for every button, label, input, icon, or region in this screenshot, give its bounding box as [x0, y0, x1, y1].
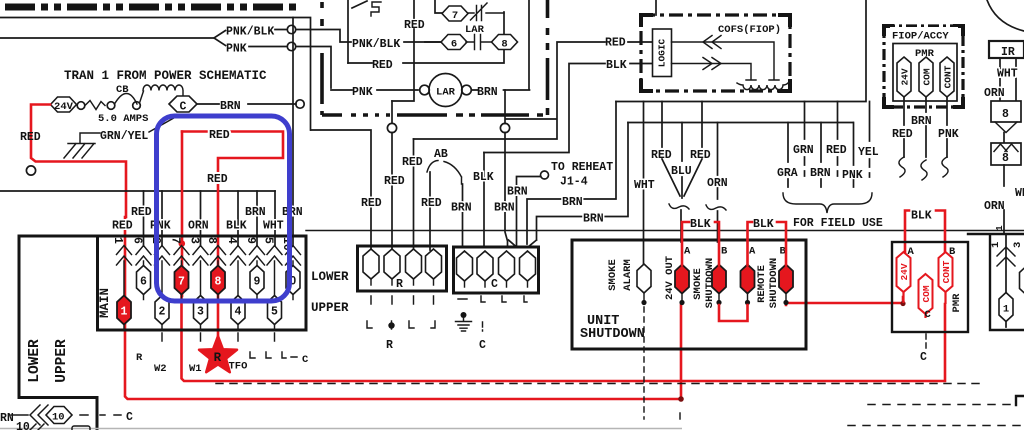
terminal A (red hexagon): [675, 265, 689, 294]
svg-text:24V: 24V: [899, 263, 910, 280]
dashed line bottom right lower: [848, 425, 1024, 427]
svg-text:ORN: ORN: [707, 177, 728, 190]
svg-text:BLK: BLK: [753, 218, 774, 231]
red wire remote B to PMR 24V: [786, 297, 903, 305]
wire: thick dashed panel edge top-left: [5, 4, 298, 11]
svg-text:RED: RED: [131, 206, 152, 219]
svg-text:CONT: CONT: [941, 260, 952, 283]
svg-text:RED: RED: [372, 59, 393, 72]
wire RED from FIOP 24V: [903, 97, 905, 157]
field wire RED: [837, 102, 839, 177]
svg-text:1: 1: [121, 306, 128, 319]
svg-text:UPPER: UPPER: [311, 301, 349, 315]
svg-text:A: A: [749, 246, 756, 258]
svg-text:CONT: CONT: [943, 65, 954, 88]
MAIN wire-entry chevrons with circuit numbers: [117, 246, 132, 266]
terminal C (hexagon): [169, 96, 197, 112]
svg-text:PNK/BLK: PNK/BLK: [352, 38, 400, 51]
svg-text:3: 3: [188, 237, 201, 244]
box COFS(FIOP) dashed: [641, 15, 790, 91]
svg-text:R: R: [214, 351, 222, 365]
LAR NC contact: [468, 3, 504, 21]
red star R: [199, 336, 237, 372]
svg-text:A: A: [684, 246, 691, 258]
box UNIT SHUTDOWN: [572, 240, 806, 349]
terminal 5 (MAIN lower row): [274, 261, 276, 330]
svg-text:W1: W1: [189, 363, 202, 375]
svg-text:TFO: TFO: [229, 361, 248, 373]
svg-text:6: 6: [131, 237, 144, 244]
wire PNK to LAR: [331, 89, 418, 91]
svg-text:FOR FIELD USE: FOR FIELD USE: [793, 217, 883, 230]
terminal C1: [457, 251, 473, 281]
svg-text:BRN: BRN: [451, 202, 472, 215]
svg-text:SHUTDOWN: SHUTDOWN: [580, 327, 645, 342]
svg-text:PNK: PNK: [842, 169, 863, 182]
svg-text:BRN: BRN: [507, 186, 528, 199]
terminal 24V (PMR, red): [897, 252, 911, 292]
svg-text:C: C: [302, 354, 309, 366]
svg-text:BRN: BRN: [282, 206, 303, 219]
forked wire PNK/BLK + PNK: [0, 31, 226, 46]
wire RED from 24V fuse, left side: [31, 105, 126, 218]
svg-text:10: 10: [52, 412, 65, 424]
svg-text:WHT: WHT: [997, 68, 1018, 81]
wire RED down to terminal R3: [413, 139, 415, 250]
svg-text:COFS(FIOP): COFS(FIOP): [718, 24, 781, 36]
svg-text:B: B: [721, 246, 728, 258]
svg-text:10: 10: [16, 421, 30, 430]
svg-text:BLU: BLU: [671, 165, 692, 178]
svg-text:5: 5: [271, 306, 278, 319]
wire BRN from C4 to bus 2: [528, 123, 628, 248]
svg-text:WHT: WHT: [634, 179, 655, 192]
svg-text:RED: RED: [361, 197, 382, 210]
wire RED down to terminal R2: [391, 133, 393, 251]
COFS coil: [737, 83, 788, 90]
svg-text:SMOKE: SMOKE: [692, 268, 704, 300]
junction dot under R2: [388, 322, 394, 328]
wire RED drop 2: [684, 102, 702, 197]
stubs under R block: [371, 296, 434, 304]
wire PNK to terminal 2: [161, 191, 163, 246]
svg-text:RED: RED: [404, 19, 425, 32]
terminal C4: [520, 251, 536, 281]
terminal strip bottom-left: [19, 396, 97, 399]
svg-text:RED: RED: [605, 37, 626, 50]
svg-text:RED: RED: [892, 128, 913, 141]
svg-text:AB: AB: [434, 148, 448, 161]
feeder wire above MAIN: [0, 190, 275, 192]
wire GRN/YEL with chassis ground: [80, 115, 180, 144]
bus wire 2: [628, 122, 853, 124]
dashed boundary vertical right: [546, 0, 550, 115]
box FIOP/ACCY dashed: [884, 26, 963, 107]
wire RED drop: [662, 102, 680, 197]
terminal COM (FIOP): [919, 57, 933, 97]
terminal R3: [406, 249, 422, 279]
svg-text:YEL: YEL: [858, 146, 879, 159]
plug chevrons 10: [30, 405, 48, 425]
wire BLK to terminal 4: [237, 191, 239, 246]
box PMR: [892, 242, 968, 332]
connector circle PNK: [287, 42, 295, 50]
svg-text:RED: RED: [690, 149, 711, 162]
svg-text:IR: IR: [1001, 46, 1015, 59]
svg-text:C: C: [479, 339, 486, 352]
svg-text:C: C: [491, 278, 498, 291]
connector circle on red wire: [26, 166, 35, 175]
svg-text:PNK: PNK: [150, 220, 171, 233]
wire RED down to terminal R4: [429, 172, 431, 250]
svg-text:PMR: PMR: [951, 293, 963, 313]
blower housing arc: [987, 0, 1024, 31]
svg-text:BRN: BRN: [477, 86, 498, 99]
svg-text:7: 7: [169, 237, 182, 244]
terminal 24V (hexagon): [51, 97, 77, 112]
svg-text:RED: RED: [826, 144, 847, 157]
terminal C2: [477, 251, 493, 281]
svg-text:ALARM: ALARM: [622, 259, 634, 291]
svg-text:PNK: PNK: [352, 86, 373, 99]
terminal B (red hexagon): [712, 265, 726, 294]
fuse CB 5.0 AMPS: [77, 102, 85, 110]
svg-text:RED: RED: [402, 156, 423, 169]
svg-text:BRN: BRN: [911, 115, 932, 128]
connector circle BRN: [296, 100, 304, 108]
dashed line bottom right upper: [868, 404, 1013, 406]
wire BRN from LAR up: [472, 0, 530, 90]
svg-text:R: R: [136, 352, 143, 364]
svg-text:8: 8: [501, 39, 507, 51]
terminal block MAIN outline: [19, 236, 306, 430]
svg-text:BRN: BRN: [494, 202, 515, 215]
plug 8 upper: [991, 101, 1021, 122]
svg-text:1: 1: [994, 225, 1005, 231]
svg-text:LOGIC: LOGIC: [657, 38, 668, 67]
svg-text:1: 1: [111, 237, 124, 244]
svg-text:R: R: [396, 278, 403, 291]
run capacitor between 6 and 8: [466, 35, 493, 50]
svg-text:PNK: PNK: [226, 43, 247, 56]
terminal smoke alarm (white hexagon): [637, 264, 651, 293]
svg-text:LOWER: LOWER: [27, 339, 43, 383]
terminal 7 (MAIN upper row): [181, 261, 183, 300]
terminal 8 (MAIN upper row): [217, 261, 219, 300]
svg-text:6: 6: [140, 276, 147, 289]
terminal C3: [499, 251, 515, 281]
wire WHT right column: [1015, 58, 1017, 101]
svg-text:BLK: BLK: [473, 171, 494, 184]
svg-text:BLK: BLK: [911, 210, 932, 223]
svg-text:RED: RED: [20, 131, 41, 144]
red jumper BLK remote shutdown: [748, 222, 787, 265]
plug 8 lower: [991, 143, 1021, 165]
terminal CONT (FIOP): [940, 57, 954, 97]
wire to LOGIC RED: [414, 42, 654, 139]
svg-text:WHT: WHT: [1015, 187, 1024, 200]
svg-text:1: 1: [990, 242, 1002, 248]
svg-text:LOWER: LOWER: [311, 270, 349, 284]
svg-text:RED: RED: [384, 175, 405, 188]
svg-text:BRN: BRN: [583, 213, 604, 226]
terminal R1: [363, 249, 379, 279]
terminal 2 (MAIN lower row): [161, 261, 163, 330]
chassis ground symbol: [64, 144, 95, 159]
svg-text:8: 8: [205, 237, 218, 244]
brace FOR FIELD USE: [783, 193, 872, 213]
svg-text:BLK: BLK: [226, 220, 247, 233]
svg-text:FIOP/ACCY: FIOP/ACCY: [892, 31, 949, 43]
terminal R2: [384, 249, 400, 279]
svg-text:RED: RED: [651, 149, 672, 162]
field wire BRN: [820, 123, 822, 188]
terminal CONT (PMR, red): [939, 252, 953, 292]
terminal block C: [454, 247, 539, 293]
wire into COFS from top: [655, 0, 657, 15]
bus wire 1: [616, 0, 866, 102]
svg-text:RED: RED: [421, 197, 442, 210]
svg-text:8: 8: [215, 276, 222, 289]
svg-text:BRN: BRN: [562, 196, 583, 209]
svg-text:9: 9: [244, 237, 257, 244]
wire ORN drop: [717, 123, 719, 200]
wire BLU drop: [681, 123, 683, 199]
svg-text:8: 8: [1002, 152, 1009, 165]
terminal B (red hexagon): [779, 265, 793, 294]
box IFC bottom right: [968, 234, 1024, 330]
plug connector circle (C side): [504, 90, 506, 124]
svg-text:GRN: GRN: [793, 144, 814, 157]
field wire YEL: [869, 102, 871, 178]
svg-text:J1-4: J1-4: [560, 176, 588, 189]
wire to LOGIC BLK: [484, 64, 653, 153]
svg-text:9: 9: [254, 276, 261, 289]
terminal 4 (MAIN lower row): [237, 261, 239, 330]
svg-text:5: 5: [262, 237, 275, 244]
wire BRN to terminal 9: [256, 191, 258, 246]
dashed stub and C label below PMR: [925, 334, 927, 348]
stray dashes below red junction: [679, 413, 681, 419]
red wire to terminal 7: [181, 132, 184, 297]
wire to smoke shutdown B: [717, 211, 719, 242]
terminal 1 (hexagon): [999, 293, 1013, 322]
COFS internal contacts: [672, 42, 780, 80]
svg-text:WHT: WHT: [263, 220, 284, 233]
wire from upper panel to R1: [0, 18, 311, 131]
svg-text:LAR: LAR: [436, 87, 456, 99]
faint bottom edge line: [0, 428, 682, 430]
wire RED from 8 to pressure switch: [348, 50, 504, 63]
svg-text:7: 7: [452, 10, 458, 22]
svg-text:1: 1: [1003, 304, 1009, 316]
svg-text:RED: RED: [112, 220, 133, 233]
connector circle PNK/BLK: [287, 25, 295, 33]
wire TO REHEAT J1-4: [509, 177, 541, 248]
svg-text:RED: RED: [207, 173, 228, 186]
svg-text:BRN: BRN: [245, 206, 266, 219]
blue highlight rounded rectangle: [157, 116, 290, 301]
wire BRN down to terminal C3: [505, 133, 508, 248]
labels under MAIN block: [162, 333, 275, 341]
dashed wire below smoke alarm: [643, 307, 645, 419]
wire BRN from C to connector: [197, 103, 296, 105]
svg-text:TRAN 1 FROM POWER SCHEMATIC: TRAN 1 FROM POWER SCHEMATIC: [64, 69, 267, 83]
earth ground under C block: [461, 312, 467, 318]
wire BLK down to terminal C2: [483, 153, 485, 248]
wire ORN to terminal 3: [200, 191, 202, 246]
wire BRN down to terminal C1: [462, 184, 464, 247]
svg-text:8: 8: [1002, 108, 1009, 121]
svg-text:4: 4: [225, 237, 238, 244]
dashes and C: [80, 414, 121, 416]
stubs under C block: [458, 296, 527, 302]
svg-text:BRN: BRN: [220, 100, 241, 113]
wire BRN from C4 to bus 1: [527, 102, 616, 245]
svg-text:C: C: [925, 309, 932, 321]
wire to 24V OUT A: [680, 210, 682, 242]
wire WHT to smoke alarm: [643, 102, 645, 266]
svg-text:C: C: [920, 351, 927, 364]
transformer coil TRAN 1: [133, 102, 141, 110]
long wire at y230: [306, 230, 1024, 232]
svg-text:GRN/YEL: GRN/YEL: [100, 130, 148, 143]
field wire GRA: [787, 123, 789, 188]
red wire bus lower (terminal 1 to 24V OUT): [125, 217, 681, 399]
terminal 7 (hexagon): [435, 0, 442, 13]
terminal 6 (hexagon): [425, 41, 442, 43]
terminal 8 (partial, right edge): [1020, 266, 1024, 295]
plug chevrons: [997, 247, 1015, 266]
svg-text:ORN: ORN: [984, 87, 1005, 100]
svg-text:GRA: GRA: [777, 167, 798, 180]
svg-text:BLK: BLK: [606, 59, 627, 72]
wire BRN from FIOP COM: [925, 97, 927, 157]
svg-text:24V: 24V: [54, 101, 74, 113]
motor LAR: [429, 74, 462, 107]
svg-text:COM: COM: [921, 285, 932, 302]
red wire loop to terminal 8: [182, 132, 283, 342]
svg-text:4: 4: [235, 306, 242, 319]
terminal R4: [426, 249, 442, 279]
svg-text:BLK: BLK: [690, 218, 711, 231]
svg-text:7: 7: [178, 276, 185, 289]
red link B to A: [719, 305, 748, 321]
svg-text:3: 3: [197, 306, 204, 319]
svg-text:BRN: BRN: [810, 167, 831, 180]
svg-text:C: C: [180, 101, 187, 114]
svg-text:5.0 AMPS: 5.0 AMPS: [98, 113, 148, 125]
wire BRN down to MAIN terminal 10: [292, 18, 294, 247]
box PMR inner: [893, 44, 957, 102]
svg-text:24V: 24V: [900, 68, 911, 85]
terminal 6 (MAIN upper row): [143, 261, 145, 300]
terminal 0 (MAIN upper row): [292, 261, 294, 300]
terminal 24V (FIOP): [897, 57, 911, 97]
black dashed run overlapping red: [216, 383, 985, 385]
terminal 1 (MAIN lower row): [123, 261, 125, 330]
red jumper BLK smoke shutdown: [682, 222, 719, 265]
terminal block R: [358, 246, 447, 291]
wire RED vertical into R circuit: [392, 0, 414, 101]
svg-text:W2: W2: [154, 363, 167, 375]
svg-text:RED: RED: [209, 129, 230, 142]
svg-text:PNK/BLK: PNK/BLK: [226, 26, 274, 39]
wire R1 feed: [311, 130, 371, 250]
wire WHT to terminal 5: [274, 191, 276, 246]
svg-text:ORN: ORN: [188, 220, 209, 233]
svg-text:REMOTE: REMOTE: [756, 265, 768, 303]
plug connector circle (R side): [391, 101, 393, 123]
field wire GRN: [804, 102, 806, 177]
svg-text:MAIN: MAIN: [98, 288, 112, 318]
relay LOGIC: [653, 29, 672, 77]
svg-text:SMOKE: SMOKE: [607, 259, 619, 291]
wire PNK from FIOP CONT: [946, 97, 948, 157]
box IR: [989, 41, 1024, 58]
dashed boundary horizontal: [322, 113, 543, 117]
terminal A (red hexagon): [741, 265, 755, 294]
wire ORN right column: [999, 58, 1001, 101]
terminal 3 (MAIN lower row): [200, 261, 202, 330]
pressure switch (top middle): [348, 0, 367, 63]
svg-text:CB: CB: [116, 84, 129, 96]
svg-text:6: 6: [451, 39, 457, 51]
svg-text:PNK: PNK: [938, 128, 959, 141]
svg-text:RN: RN: [0, 412, 14, 425]
field wire PNK: [853, 123, 855, 188]
splice squiggle: [669, 204, 689, 209]
svg-text:2: 2: [159, 306, 166, 319]
svg-text:UPPER: UPPER: [54, 339, 70, 383]
terminal 9 (MAIN upper row): [256, 261, 258, 300]
svg-text:3: 3: [1012, 242, 1024, 248]
terminal COM (PMR, red): [919, 274, 933, 314]
terminal 10 (hexagon): [46, 407, 72, 424]
svg-text:COM: COM: [922, 68, 933, 85]
svg-text:TO REHEAT: TO REHEAT: [551, 161, 613, 174]
red jumper BLK PMR: [905, 211, 945, 253]
svg-text:R: R: [386, 339, 393, 352]
dashed boundary vertical left: [320, 2, 324, 115]
terminal 8 (hexagon): [492, 35, 518, 50]
wire RED to terminal 6: [143, 191, 145, 246]
svg-text:ORN: ORN: [984, 200, 1005, 213]
red wire bus upper (terminal 7 to PMR CONT): [182, 294, 946, 381]
svg-text:C: C: [126, 411, 133, 424]
